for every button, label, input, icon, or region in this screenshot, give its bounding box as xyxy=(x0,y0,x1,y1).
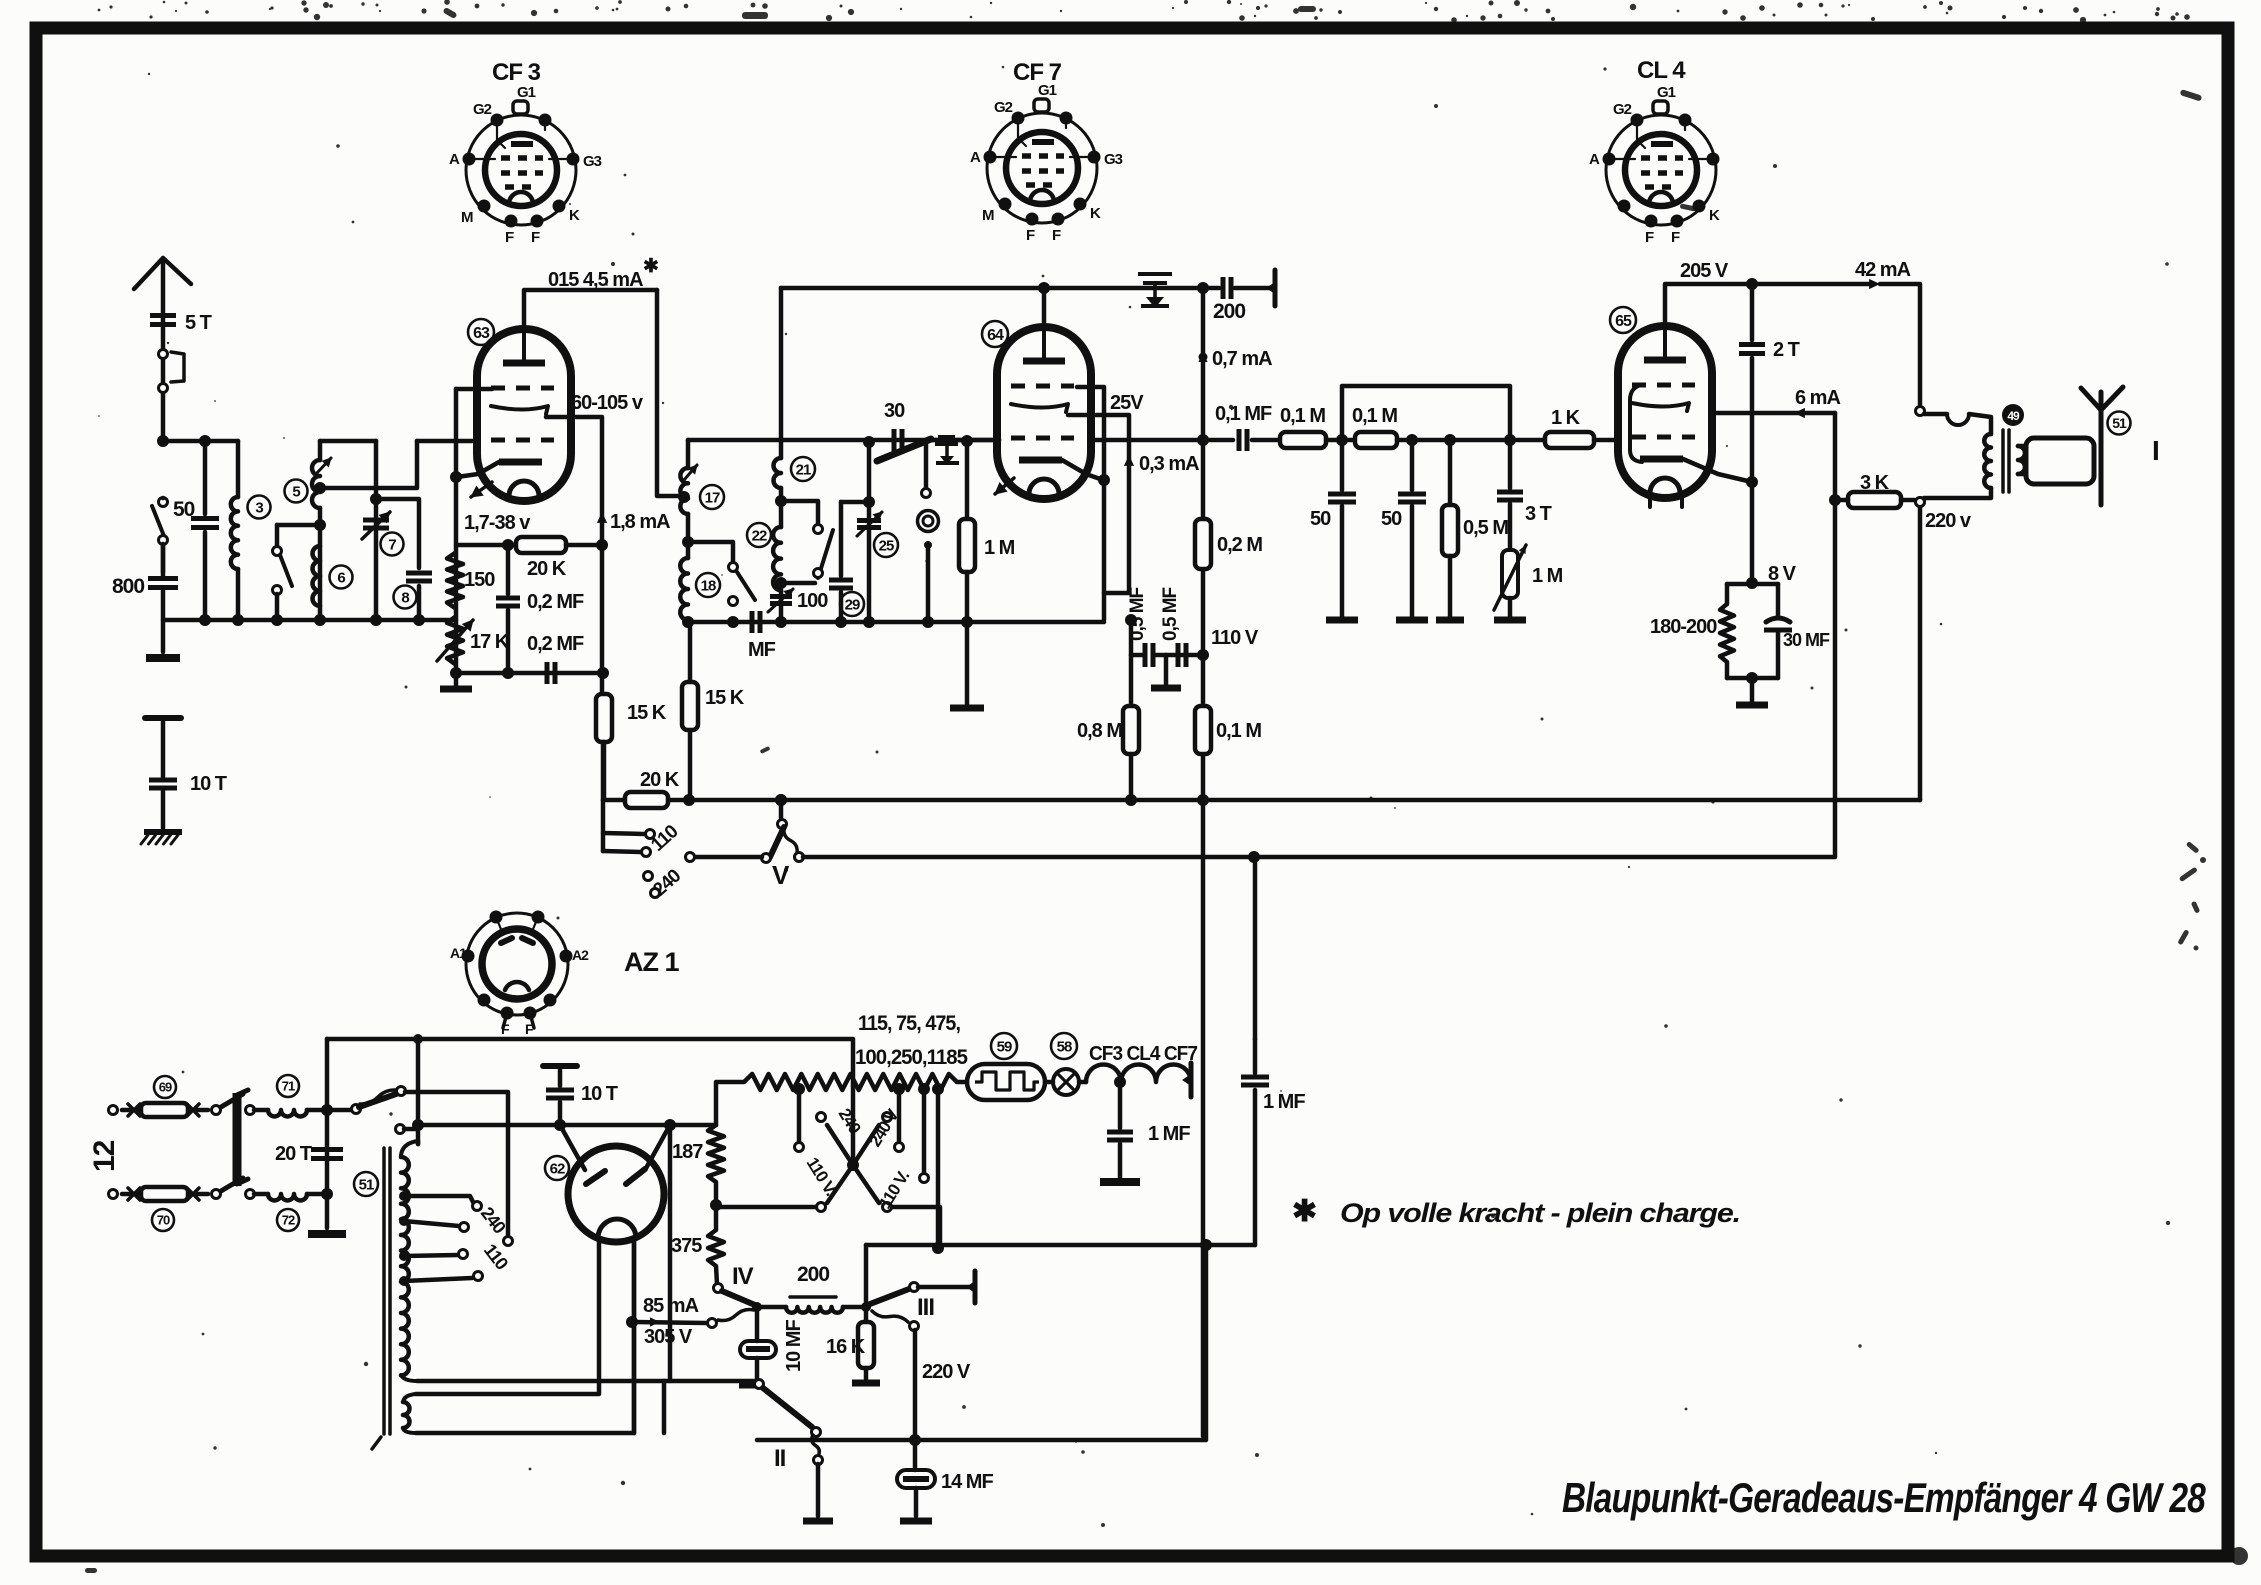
svg-text:K: K xyxy=(1709,207,1720,224)
svg-text:25: 25 xyxy=(879,537,894,554)
wire tap to switch 19 xyxy=(688,542,733,562)
switch I spring xyxy=(360,1090,396,1104)
svg-text:58: 58 xyxy=(1057,1038,1072,1055)
resistor 20K AVC xyxy=(601,742,606,800)
resistor 0,8M xyxy=(1129,655,1134,706)
wire 0,5MF node xyxy=(1129,620,1134,655)
svg-text:20 K: 20 K xyxy=(527,558,567,580)
primary tap A xyxy=(399,1191,409,1201)
svg-text:0,3 mA: 0,3 mA xyxy=(1139,453,1199,475)
tube V65 cathode lead xyxy=(1683,459,1752,482)
capacitor 50 xyxy=(203,441,208,514)
crossover hop xyxy=(1947,414,1969,425)
svg-text:220 V: 220 V xyxy=(922,1361,971,1383)
selector contact NW xyxy=(817,1113,826,1122)
designator circle 6 xyxy=(330,566,353,589)
designator circle 62 xyxy=(545,1156,569,1180)
transformer primary winding xyxy=(401,1141,417,1157)
svg-text:G3: G3 xyxy=(1104,151,1123,168)
switch II lower contact xyxy=(814,1456,823,1465)
node L22 tap xyxy=(775,577,787,589)
wire antenna top rail xyxy=(163,439,238,444)
wire to primary xyxy=(1969,414,1991,434)
wire after resistor xyxy=(1397,438,1545,443)
wire G3 V63 to left rail xyxy=(456,387,492,392)
svg-text:K: K xyxy=(569,207,580,224)
svg-text:✱: ✱ xyxy=(643,256,659,277)
capacitor 0,1 MF coupling xyxy=(1203,438,1233,443)
zigzag tap wires xyxy=(793,1083,805,1095)
svg-text:20 K: 20 K xyxy=(640,769,680,791)
ground 50 first xyxy=(1326,617,1358,624)
capacitor 200 series top rail xyxy=(1203,286,1219,291)
capacitor 3T xyxy=(1508,440,1513,488)
switch III blade xyxy=(870,1289,909,1304)
svg-text:65: 65 xyxy=(1615,313,1632,330)
capacitor 50 first xyxy=(1340,440,1345,490)
resistor 150 zigzag xyxy=(447,553,463,608)
antenna plug connector circles xyxy=(159,350,168,359)
svg-text:A1: A1 xyxy=(450,945,467,961)
trimmer capacitor C8 xyxy=(406,571,432,576)
node coil L5 upper tap xyxy=(314,482,326,494)
tube V63 cathode lead xyxy=(457,462,499,477)
switch S4a band xyxy=(275,525,280,547)
ground 10MF xyxy=(739,1382,763,1389)
svg-text:375: 375 xyxy=(671,1235,702,1257)
AZ1 anode bars xyxy=(586,1171,605,1184)
node cathode V65 xyxy=(1746,476,1758,488)
chassis flag heater end xyxy=(1189,1063,1194,1097)
node 3K left xyxy=(1829,494,1841,506)
selector contact SE xyxy=(883,1203,892,1212)
wire mains riser xyxy=(416,1039,421,1129)
coil L3 antenna xyxy=(236,441,241,497)
tuning capacitor C7 plates xyxy=(363,518,389,523)
svg-text:015 4,5 mA: 015 4,5 mA xyxy=(548,269,643,291)
top rail y288 xyxy=(781,286,1203,291)
designator circle 51 xyxy=(354,1172,378,1196)
node top rail 869 xyxy=(863,436,875,448)
svg-text:CF 7: CF 7 xyxy=(1013,59,1062,86)
svg-text:F: F xyxy=(531,229,540,246)
wire SE contact to bottom wire xyxy=(892,1207,940,1248)
node L17 anode tap xyxy=(678,491,690,503)
wire grid coupling vertical xyxy=(867,442,872,502)
svg-text:220 v: 220 v xyxy=(1925,510,1972,532)
anode drop wire V63 xyxy=(657,290,681,496)
designator circle 29 xyxy=(840,592,864,616)
potentiometer 17K arrow xyxy=(437,620,473,661)
wire 59 to 58 xyxy=(1045,1080,1053,1085)
designator circle 25 xyxy=(874,533,898,557)
designator circle 59 xyxy=(991,1033,1017,1059)
svg-text:1 MF: 1 MF xyxy=(1148,1123,1190,1145)
svg-text:G1: G1 xyxy=(1657,84,1676,101)
svg-text:F: F xyxy=(1671,229,1680,246)
tube socket CL4 (top view) xyxy=(1606,115,1716,225)
wire fork corner down xyxy=(668,1125,673,1381)
wire 6mA feedback xyxy=(1833,413,1838,500)
wire y1245 xyxy=(866,1243,1255,1248)
wire tap to trimmer xyxy=(320,441,417,488)
node 110V xyxy=(1197,649,1209,661)
screen current arrow 1,8mA xyxy=(597,512,607,523)
primary tap D xyxy=(399,1276,409,1286)
svg-text:50: 50 xyxy=(1381,508,1402,530)
bottom bus antenna section xyxy=(163,618,456,623)
switch II spring xyxy=(812,1435,820,1456)
ground II xyxy=(803,1518,833,1525)
svg-text:0,1 MF: 0,1 MF xyxy=(1215,403,1272,425)
wire grid rail to V63 xyxy=(417,439,478,444)
designator circle 72 xyxy=(277,1209,299,1231)
switch contact below blade xyxy=(924,444,929,488)
mains switch lower contact xyxy=(212,1190,221,1199)
wire rail into V64 grid xyxy=(931,438,999,443)
svg-text:F: F xyxy=(1026,227,1035,244)
wire switch 23 bottom tap xyxy=(781,581,815,586)
potentiometer 1M slanted xyxy=(1508,504,1513,550)
switch I top contact xyxy=(397,1087,406,1096)
selector cross arms xyxy=(827,1125,853,1165)
svg-text:MF: MF xyxy=(748,639,776,661)
svg-text:CF 3: CF 3 xyxy=(492,59,541,86)
svg-text:0,7 mA: 0,7 mA xyxy=(1212,348,1272,370)
svg-text:G1: G1 xyxy=(517,84,536,101)
output transformer primary xyxy=(1984,434,1991,488)
svg-text:G2: G2 xyxy=(1613,101,1632,118)
node mains junction upper xyxy=(321,1104,333,1116)
anode lead V65 xyxy=(1665,284,1752,326)
svg-text:0,5 MF: 0,5 MF xyxy=(1127,587,1148,641)
svg-text:M: M xyxy=(982,207,994,224)
ground antenna xyxy=(146,654,180,662)
svg-text:200: 200 xyxy=(797,1263,829,1286)
svg-text:0,2 MF: 0,2 MF xyxy=(527,633,584,655)
ground 1M bus xyxy=(965,622,970,704)
capacitor 5T in antenna lead xyxy=(150,313,176,318)
capacitor 0,5 MF left xyxy=(1143,643,1148,667)
designator circle 17 xyxy=(700,485,724,509)
connector bracket xyxy=(171,352,184,382)
capacitor MF series in bus xyxy=(750,611,755,633)
switch II upper contact xyxy=(755,1380,764,1389)
jack ring symbol xyxy=(918,511,939,532)
resistor 15K screen V63 xyxy=(596,694,612,742)
svg-text:A: A xyxy=(1589,151,1600,168)
wire 6mA junction down xyxy=(1833,500,1838,856)
svg-text:15 K: 15 K xyxy=(627,702,667,724)
designator circle 7 xyxy=(381,533,404,556)
wire plate supply to 42mA xyxy=(1752,282,1874,287)
wire 85mA to IV contact xyxy=(650,1317,660,1326)
tube V65 CL4 envelope xyxy=(1618,326,1712,498)
heater coils CF3 CL4 CF7 xyxy=(1079,1080,1086,1085)
capacitor 0,5 MF right xyxy=(1176,643,1181,667)
wire tap to coil 5/6 xyxy=(277,523,320,528)
switch III upper contact xyxy=(910,1283,919,1292)
designator circle 64 xyxy=(982,321,1008,347)
tube V65 screen bracket xyxy=(1630,385,1642,462)
fuse 70 xyxy=(128,1188,140,1200)
ground cathode network xyxy=(454,675,459,685)
svg-text:0,1 M: 0,1 M xyxy=(1216,720,1261,742)
wire to node xyxy=(1326,438,1355,443)
resistor 0,1M vertical xyxy=(1195,706,1211,754)
switch S4 antenna xyxy=(159,498,168,507)
switch I bottom contact xyxy=(396,1125,405,1134)
potentiometer 17K zigzag xyxy=(447,617,463,664)
AVC rail 2 xyxy=(803,855,1835,860)
capacitor 800 to ground xyxy=(148,576,178,581)
top rail y440 left section xyxy=(688,438,999,443)
svg-text:49: 49 xyxy=(2007,409,2020,423)
svg-text:60-105 v: 60-105 v xyxy=(571,392,644,414)
ground cathode V65 xyxy=(1750,678,1755,701)
svg-text:30 MF: 30 MF xyxy=(1783,630,1830,650)
wire secondary bottom jog xyxy=(662,1381,667,1433)
svg-text:150: 150 xyxy=(464,569,495,591)
anode lead V63 to top xyxy=(524,290,657,329)
secondary leads to speaker xyxy=(2018,444,2026,449)
coil L5 adjust arrow xyxy=(316,458,331,474)
output transformer secondary xyxy=(2018,446,2025,474)
svg-text:10 T: 10 T xyxy=(190,773,227,795)
node mains junction lower xyxy=(321,1188,333,1200)
AZ1 filament left lead xyxy=(416,1240,599,1394)
svg-text:6 mA: 6 mA xyxy=(1795,387,1840,409)
wire L21 tap to switch 23 xyxy=(781,501,818,524)
svg-text:3: 3 xyxy=(255,499,263,516)
svg-text:70: 70 xyxy=(157,1213,170,1228)
resistor 3K xyxy=(1848,492,1901,508)
resistor 1K grid V65 xyxy=(1545,432,1594,448)
antenna symbol xyxy=(134,258,163,441)
AZ1 cathode dome xyxy=(598,1219,636,1238)
node feedback left xyxy=(1336,434,1348,446)
left rail V63 xyxy=(454,389,459,673)
wire cathode network top xyxy=(456,543,516,548)
node selector center xyxy=(851,1086,856,1165)
node 85mA xyxy=(626,1316,638,1328)
anode lead V64 xyxy=(1042,288,1047,327)
ground mains xyxy=(308,1230,346,1238)
tuning capacitor C7 line xyxy=(374,441,379,620)
capacitor 14 MF electrolytic xyxy=(913,1440,918,1470)
switch S19 xyxy=(729,563,738,572)
transformer core xyxy=(382,1148,386,1434)
node divider tap xyxy=(710,1199,722,1211)
node 8V xyxy=(1746,577,1758,589)
resistor 0,1M second xyxy=(1355,432,1397,448)
tube V63 filament arrow xyxy=(471,482,492,497)
designator circle 69 xyxy=(154,1076,176,1098)
mains switch blade upper xyxy=(221,1094,243,1107)
svg-text:0,5 MF: 0,5 MF xyxy=(1160,587,1181,641)
svg-text:1,7-38 v: 1,7-38 v xyxy=(464,512,531,534)
svg-text:III: III xyxy=(917,1294,934,1321)
svg-text:25V: 25V xyxy=(1110,392,1144,414)
svg-text:IV: IV xyxy=(732,1263,754,1290)
wire chain left to 187 xyxy=(716,1082,744,1125)
wire C29 link xyxy=(841,500,869,505)
ground between caps xyxy=(1164,655,1169,684)
svg-text:F: F xyxy=(505,229,514,246)
tube socket CF7 (top view) xyxy=(987,113,1097,223)
primary bottom lead xyxy=(1924,488,1991,498)
feedback loop wire xyxy=(1342,386,1510,440)
node choke right xyxy=(861,1302,871,1312)
ground 16K xyxy=(852,1380,880,1387)
capacitor 20 T xyxy=(311,1147,343,1152)
switch I pivot xyxy=(327,1108,351,1113)
svg-text:200: 200 xyxy=(1213,300,1245,323)
band switch blade at C30 xyxy=(877,439,931,461)
capacitor 10T to earth xyxy=(161,718,166,777)
wire L17 mid xyxy=(686,514,691,558)
svg-text:800: 800 xyxy=(112,575,144,598)
svg-text:6: 6 xyxy=(337,569,345,586)
transformer secondary winding xyxy=(403,1394,416,1402)
wire to trimmer C8 xyxy=(376,499,419,568)
speaker fork xyxy=(2099,392,2104,505)
svg-text:72: 72 xyxy=(282,1213,295,1228)
svg-text:64: 64 xyxy=(987,327,1004,344)
svg-text:I: I xyxy=(2152,435,2159,466)
svg-text:5: 5 xyxy=(292,483,300,500)
capacitor 0,2 MF first xyxy=(506,545,511,594)
fuse 69 xyxy=(128,1104,140,1116)
node 20K right xyxy=(596,539,608,551)
AZ1 anode fork right xyxy=(645,1125,670,1170)
capacitor 2T xyxy=(1750,284,1755,340)
switch III lower contact xyxy=(910,1322,919,1331)
svg-text:0,5 M: 0,5 M xyxy=(1463,517,1508,539)
svg-text:16 K: 16 K xyxy=(826,1336,866,1358)
designator circle 8 xyxy=(394,586,417,609)
svg-text:69: 69 xyxy=(159,1080,172,1095)
terminal circle 220V side xyxy=(1916,498,1925,507)
designator circle 21 xyxy=(791,457,815,481)
svg-text:85 mA: 85 mA xyxy=(643,1295,699,1317)
svg-text:100,250,1185: 100,250,1185 xyxy=(855,1046,968,1069)
svg-text:CF3 CL4 CF7: CF3 CL4 CF7 xyxy=(1089,1043,1198,1065)
tube V65 filament stubs xyxy=(1648,497,1652,507)
svg-text:✱: ✱ xyxy=(1292,1195,1316,1228)
svg-text:205 V: 205 V xyxy=(1680,260,1729,282)
svg-text:59: 59 xyxy=(997,1038,1012,1055)
G3 wire V64 xyxy=(1077,387,1104,620)
ground 0,5M xyxy=(1436,617,1464,624)
svg-text:30: 30 xyxy=(884,400,905,422)
resistor 20K cathode xyxy=(516,537,566,553)
svg-text:71: 71 xyxy=(282,1079,295,1094)
pilot lamp 58 xyxy=(1053,1069,1079,1095)
resistor 375 zigzag xyxy=(708,1230,724,1266)
mains terminal upper xyxy=(109,1106,118,1115)
ballast tube 59 xyxy=(957,1080,967,1085)
choke 200 xyxy=(757,1305,786,1310)
rectifier tube V62 AZ1 circle xyxy=(568,1146,664,1242)
arrow 0,7 mA xyxy=(1199,353,1208,362)
rectifier socket AZ1 (top view) xyxy=(466,913,568,1015)
node antenna junction xyxy=(157,435,169,447)
node 0,2MF tap xyxy=(502,539,514,551)
svg-text:15 K: 15 K xyxy=(705,687,745,709)
svg-text:62: 62 xyxy=(550,1160,565,1177)
svg-text:3 T: 3 T xyxy=(1525,503,1552,525)
svg-text:II: II xyxy=(774,1445,786,1472)
svg-text:F: F xyxy=(1645,229,1654,246)
coil L5 xyxy=(318,441,323,460)
node main rail 1203 xyxy=(1197,434,1209,446)
choke 200 bar xyxy=(790,1295,836,1299)
tube V64 CF7 envelope xyxy=(997,327,1091,499)
svg-text:0,8 M: 0,8 M xyxy=(1077,720,1122,742)
main bus under coils xyxy=(688,620,1104,625)
ground heater cap xyxy=(1100,1178,1140,1186)
AVC rail 1 xyxy=(603,798,1920,803)
AVC rail 2 left xyxy=(694,855,762,860)
svg-text:10 T: 10 T xyxy=(581,1083,618,1105)
svg-text:K: K xyxy=(1090,205,1101,222)
ground 50 second xyxy=(1396,617,1428,624)
resistor 1M grid V64 xyxy=(965,441,970,519)
svg-text:7: 7 xyxy=(388,536,396,553)
svg-text:20 T: 20 T xyxy=(275,1143,312,1165)
svg-text:110 V: 110 V xyxy=(1211,627,1259,649)
resistor 375 to IV blade contact xyxy=(714,1284,723,1293)
interference coil 72 xyxy=(246,1190,255,1199)
svg-text:17 K: 17 K xyxy=(470,631,510,653)
svg-text:0,1 M: 0,1 M xyxy=(1352,405,1397,427)
capacitor 10 T xyxy=(558,1068,563,1086)
wire 20K to 1,8mA node xyxy=(566,543,602,548)
primary tap B xyxy=(399,1216,409,1226)
designator circle 70 xyxy=(152,1209,174,1231)
svg-text:1 MF: 1 MF xyxy=(1263,1091,1305,1113)
mains switch link bar xyxy=(233,1093,242,1186)
svg-text:115, 75, 475,: 115, 75, 475, xyxy=(858,1012,960,1035)
wire primary top xyxy=(416,1141,421,1144)
svg-text:2 T: 2 T xyxy=(1773,339,1800,361)
tube V63 CF3 envelope xyxy=(477,329,571,501)
screen wire V64 25V xyxy=(1068,415,1129,593)
wire anode line xyxy=(418,1123,716,1128)
svg-text:G2: G2 xyxy=(994,99,1013,116)
mains switch blade lower xyxy=(221,1178,243,1191)
chassis bypass symbol xyxy=(938,435,955,439)
screen wire V63 xyxy=(546,417,602,545)
resistor 187 zigzag xyxy=(708,1125,724,1182)
svg-text:51: 51 xyxy=(359,1176,374,1193)
svg-text:12: 12 xyxy=(88,1140,121,1172)
wire primary bottom to switch II xyxy=(417,1379,755,1384)
svg-text:Op volle kracht - plein charge: Op volle kracht - plein charge. xyxy=(1340,1198,1740,1228)
mains vertical xyxy=(325,1039,330,1228)
wire selector to primary top xyxy=(416,1129,421,1144)
mid rail y440 right section xyxy=(1091,438,1203,443)
chassis flag top xyxy=(1273,270,1278,306)
svg-text:305 V: 305 V xyxy=(644,1326,693,1348)
svg-text:Blaupunkt-Geradeaus-Empfänger: Blaupunkt-Geradeaus-Empfänger 4 GW 28 xyxy=(1562,1474,2206,1521)
ground 1M pot xyxy=(1494,617,1526,624)
ground 14MF xyxy=(900,1518,932,1525)
switch IV blade xyxy=(722,1291,755,1305)
designator circle 51 speaker xyxy=(2108,412,2131,435)
wire 0,7mA drop xyxy=(1201,288,1206,440)
